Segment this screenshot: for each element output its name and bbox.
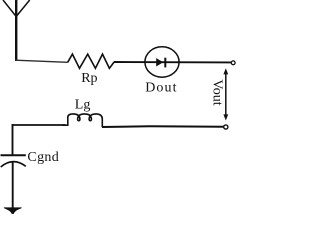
resistor Rp bbox=[68, 54, 115, 68]
wire down from corner to capacitor bbox=[12, 124, 14, 155]
svg-text:Rp: Rp bbox=[81, 71, 97, 86]
output terminal top bbox=[231, 61, 235, 65]
svg-text:Cgnd: Cgnd bbox=[27, 150, 59, 165]
capacitor Cgnd top plate bbox=[1, 154, 26, 156]
antenna left arm bbox=[3, 0, 16, 17]
wire inductor to bottom terminal bbox=[102, 125, 224, 128]
wire resistor to output terminal bbox=[114, 61, 231, 63]
wire middle-left corner to inductor bbox=[13, 124, 66, 126]
inductor Lg bbox=[62, 114, 102, 127]
svg-text:Dout: Dout bbox=[145, 81, 177, 96]
diode Dout cathode bar bbox=[164, 58, 166, 68]
diode Dout triangle bbox=[156, 58, 163, 66]
capacitor Cgnd curved plate bbox=[1, 162, 26, 167]
diode envelope circle bbox=[145, 47, 179, 77]
wire from antenna corner to resistor bbox=[15, 60, 67, 62]
wire capacitor to ground bbox=[12, 162, 14, 208]
Vout measurement arrow bbox=[223, 68, 228, 120]
svg-text:Vout: Vout bbox=[210, 79, 225, 105]
output terminal bottom bbox=[224, 125, 228, 129]
antenna right arm bbox=[16, 0, 30, 17]
svg-text:Lg: Lg bbox=[75, 98, 91, 113]
antenna ANT mast bbox=[15, 0, 17, 61]
ground arrow bbox=[4, 208, 22, 215]
